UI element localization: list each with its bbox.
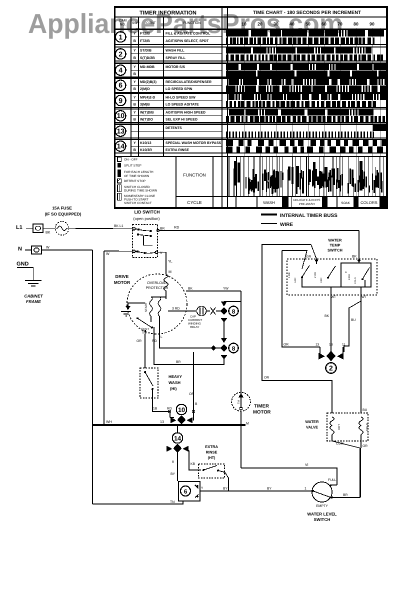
svg-text:SWITCH: SWITCH xyxy=(328,249,343,253)
svg-text:TN: TN xyxy=(170,500,175,504)
svg-text:WASH FILL: WASH FILL xyxy=(166,49,186,53)
temp switch bottom bus xyxy=(302,277,365,287)
cam row 9 xyxy=(115,94,387,108)
wire WT output left xyxy=(330,287,332,351)
svg-text:1: 1 xyxy=(119,34,123,41)
svg-text:YW: YW xyxy=(223,286,229,290)
svg-text:DRIVE: DRIVE xyxy=(115,274,128,279)
svg-text:13: 13 xyxy=(160,420,164,424)
svg-text:WT: WT xyxy=(362,295,367,299)
schematic xyxy=(0,0,1,1)
svg-text:90: 90 xyxy=(370,22,375,27)
timer switch 6 xyxy=(179,482,201,502)
svg-text:FUNCTION: FUNCTION xyxy=(183,173,206,178)
wire down to water temp switch xyxy=(358,231,360,259)
svg-text:FT2/B: FT2/B xyxy=(140,31,150,35)
svg-text:GR: GR xyxy=(306,255,312,259)
svg-text:OR: OR xyxy=(264,376,270,380)
connector P2 (N terminal) xyxy=(25,246,42,254)
svg-text:W: W xyxy=(46,246,50,250)
svg-text:K10/13: K10/13 xyxy=(140,141,151,145)
svg-text:6: 6 xyxy=(119,83,123,90)
svg-text:A: A xyxy=(345,271,347,274)
svg-text:INTERNAL TIMER BUSS: INTERNAL TIMER BUSS xyxy=(280,213,338,219)
svg-text:BK: BK xyxy=(46,231,51,235)
svg-text:RECIRCULATE/DISPENSER: RECIRCULATE/DISPENSER xyxy=(166,80,212,84)
svg-text:MD-MDB: MD-MDB xyxy=(140,65,155,69)
timer information table frame xyxy=(115,7,387,208)
wire OR branch to contact 2 xyxy=(282,251,320,348)
svg-text:KB: KB xyxy=(191,462,196,466)
svg-text:2: 2 xyxy=(329,366,333,373)
svg-text:HOT: HOT xyxy=(337,424,341,430)
wire OR to heavy wash xyxy=(144,334,146,368)
svg-text:1B: 1B xyxy=(153,407,158,411)
timer contact 10 xyxy=(176,404,186,414)
svg-text:GND: GND xyxy=(17,262,29,268)
wire left rail N down xyxy=(91,250,93,504)
start winding xyxy=(150,297,153,316)
svg-text:OR: OR xyxy=(137,339,143,343)
svg-text:DETENT STOP: DETENT STOP xyxy=(124,179,146,183)
svg-text:M: M xyxy=(246,422,249,426)
svg-text:(open position): (open position) xyxy=(133,216,160,221)
svg-text:START: START xyxy=(144,302,148,312)
svg-text:TIMER INFORMATION: TIMER INFORMATION xyxy=(139,11,196,17)
svg-text:BY: BY xyxy=(267,486,272,490)
svg-text:SOAK: SOAK xyxy=(341,201,351,205)
main winding xyxy=(158,297,161,316)
svg-text:11: 11 xyxy=(342,343,346,347)
svg-text:4: 4 xyxy=(119,68,123,75)
cam row 10 xyxy=(115,109,387,123)
svg-text:MP(4)2-D: MP(4)2-D xyxy=(140,95,156,99)
svg-text:60: 60 xyxy=(322,22,327,27)
svg-text:SPLIT STEP: SPLIT STEP xyxy=(124,164,141,168)
connector P1 (L1 terminal) xyxy=(26,224,43,233)
svg-text:SPRAY FILL: SPRAY FILL xyxy=(166,56,187,60)
wire lid switch to drive motor xyxy=(158,252,166,274)
svg-text:RD: RD xyxy=(167,407,172,411)
legend wire xyxy=(261,223,277,225)
wire N horizontal xyxy=(42,249,93,251)
wire fuse to lid switch xyxy=(69,227,132,230)
svg-text:AGIT/SPIN HIGH SPEED: AGIT/SPIN HIGH SPEED xyxy=(166,111,207,115)
temp switch contacts xyxy=(302,259,370,279)
svg-text:10: 10 xyxy=(242,22,247,27)
svg-text:BK: BK xyxy=(188,286,193,290)
svg-text:MOTOR S/S: MOTOR S/S xyxy=(166,65,186,69)
svg-text:RD: RD xyxy=(174,226,180,230)
svg-text:BK: BK xyxy=(325,314,330,318)
svg-text:WH: WH xyxy=(106,420,112,424)
svg-text:TM: TM xyxy=(238,400,241,404)
svg-text:YL: YL xyxy=(168,260,172,264)
svg-text:1B: 1B xyxy=(329,343,333,347)
svg-text:AGIT/SPIN SELECT, SPDT: AGIT/SPIN SELECT, SPDT xyxy=(166,39,210,43)
svg-text:W: W xyxy=(106,252,110,256)
winding top connections xyxy=(151,295,166,299)
svg-text:PRE-WASH: PRE-WASH xyxy=(299,202,315,206)
svg-text:CONT: CONT xyxy=(146,21,156,25)
svg-text:10: 10 xyxy=(117,113,125,120)
wire OR loop left xyxy=(262,245,332,414)
svg-text:LO SPEED SPIN: LO SPEED SPIN xyxy=(166,87,193,91)
timer contact 8A xyxy=(221,302,227,307)
svg-text:WASH: WASH xyxy=(263,200,275,205)
water level switch S5 xyxy=(312,482,332,502)
svg-text:TEMP: TEMP xyxy=(330,244,341,248)
svg-text:FILL & AGITATE CONTROL: FILL & AGITATE CONTROL xyxy=(166,31,212,35)
svg-text:BR: BR xyxy=(343,493,348,497)
svg-text:EXTRA RINSE: EXTRA RINSE xyxy=(166,148,190,152)
svg-text:CYCLE: CYCLE xyxy=(187,200,202,205)
wire RD to contact 8B xyxy=(160,335,222,348)
svg-text:LID SWITCH: LID SWITCH xyxy=(134,210,160,215)
svg-text:BR: BR xyxy=(160,227,165,231)
heavy wash switch S2 xyxy=(140,368,158,398)
wire BY to water level switch xyxy=(200,490,312,492)
svg-text:1: 1 xyxy=(305,486,307,490)
svg-text:RD: RD xyxy=(152,339,157,343)
wire 14 to extra rinse xyxy=(189,451,201,471)
svg-text:OR: OR xyxy=(363,444,369,448)
svg-text:L1: L1 xyxy=(16,225,22,231)
svg-text:BU: BU xyxy=(363,408,368,412)
svg-text:80: 80 xyxy=(354,22,359,27)
wire L1 to fuse xyxy=(43,227,55,229)
wire contact 10 right leg xyxy=(193,352,195,421)
cam row 14 xyxy=(115,140,387,154)
wire heavy wash to contact 10 xyxy=(153,390,171,412)
svg-text:MOTOR: MOTOR xyxy=(253,410,271,416)
svg-text:HI-LO SPEED S/W: HI-LO SPEED S/W xyxy=(166,95,197,99)
drive motor M1 xyxy=(127,274,187,334)
svg-text:CABINET: CABINET xyxy=(24,294,43,299)
wire 14 down to switch 6 xyxy=(177,453,179,482)
svg-text:140F: 140F xyxy=(294,277,297,283)
wire RD top buss xyxy=(159,230,359,232)
internal timer buss vertical xyxy=(240,291,242,392)
timer contact 14 xyxy=(177,425,179,434)
internal timer buss bottom rail xyxy=(92,424,245,426)
svg-text:K10/3R: K10/3R xyxy=(140,148,152,152)
svg-text:COLD: COLD xyxy=(354,277,357,284)
wire valve bottoms join xyxy=(332,437,361,448)
legend internal timer buss xyxy=(261,214,277,216)
centrifugal switch xyxy=(137,318,151,327)
svg-text:OVERLOAD: OVERLOAD xyxy=(147,281,167,285)
overload protector coil xyxy=(164,275,168,298)
svg-text:10: 10 xyxy=(178,407,186,414)
svg-text:FULL: FULL xyxy=(328,478,336,482)
wire WT output right xyxy=(360,287,362,413)
svg-text:NO.: NO. xyxy=(120,23,126,27)
legend symbol key xyxy=(118,157,158,205)
wire 8B down and left xyxy=(154,333,224,365)
svg-text:WATER: WATER xyxy=(305,420,319,424)
svg-text:50: 50 xyxy=(306,22,311,27)
svg-text:14: 14 xyxy=(174,436,182,443)
wire empty out xyxy=(333,497,360,499)
svg-text:MD(2)B(3): MD(2)B(3) xyxy=(140,80,157,84)
time chart scale numbers xyxy=(242,22,375,27)
svg-text:RINSE: RINSE xyxy=(206,451,218,455)
svg-text:HEAVY: HEAVY xyxy=(169,374,183,379)
valve solenoid right xyxy=(359,417,363,437)
winding bottom leads xyxy=(145,316,159,335)
svg-text:SPECIAL WASH MOTOR BYPASS: SPECIAL WASH MOTOR BYPASS xyxy=(166,141,222,145)
svg-text:9: 9 xyxy=(119,98,123,105)
svg-text:13: 13 xyxy=(117,129,125,136)
time chart grid lines xyxy=(244,28,380,196)
timer contact 2 xyxy=(320,346,343,354)
wire BU branch xyxy=(344,301,361,352)
svg-text:VI: VI xyxy=(305,463,308,467)
svg-text:ST/D/B: ST/D/B xyxy=(140,49,152,53)
svg-text:BU: BU xyxy=(351,318,356,322)
svg-text:COLORS: COLORS xyxy=(361,200,378,205)
svg-text:COLD: COLD xyxy=(365,423,369,431)
svg-text:L: L xyxy=(161,335,163,339)
svg-text:S(T)D/2B: S(T)D/2B xyxy=(140,56,155,60)
svg-text:ON - OFF: ON - OFF xyxy=(124,158,138,162)
svg-text:SEL EXP HI SPEED: SEL EXP HI SPEED xyxy=(166,118,198,122)
wire motor to relay buss top xyxy=(186,290,241,292)
wire VI to water level switch xyxy=(241,468,337,485)
svg-text:OR: OR xyxy=(189,392,195,396)
svg-text:BY: BY xyxy=(171,472,176,476)
svg-text:OF TIME SHOWN: OF TIME SHOWN xyxy=(124,174,149,178)
svg-text:3(M)B: 3(M)B xyxy=(140,102,150,106)
valve solenoid left xyxy=(330,417,334,437)
wire right rail to empty xyxy=(359,448,361,498)
motor internal ground xyxy=(128,303,145,306)
svg-text:40: 40 xyxy=(290,22,295,27)
svg-text:FT2/B: FT2/B xyxy=(140,39,150,43)
legend box xyxy=(115,157,387,209)
svg-text:100F: 100F xyxy=(320,277,323,283)
svg-text:EMPTY: EMPTY xyxy=(316,504,328,508)
svg-text:FUNCTION: FUNCTION xyxy=(183,21,201,25)
svg-text:WIRE: WIRE xyxy=(280,222,294,228)
cam row 4 xyxy=(115,63,387,77)
timer contact 8B xyxy=(221,338,227,343)
svg-text:4 BU: 4 BU xyxy=(348,274,351,280)
svg-text:FRAME: FRAME xyxy=(26,299,41,304)
svg-text:(HT): (HT) xyxy=(208,456,216,460)
svg-text:BK: BK xyxy=(352,255,357,259)
svg-text:(IF SO EQUIPPED): (IF SO EQUIPPED) xyxy=(45,212,82,217)
svg-text:1 BK: 1 BK xyxy=(288,272,291,278)
svg-text:W(T)DO: W(T)DO xyxy=(140,118,153,122)
legend function marks xyxy=(229,157,384,197)
svg-text:14: 14 xyxy=(117,144,125,151)
capacitor C1 / current relay xyxy=(168,310,196,312)
svg-text:BY: BY xyxy=(223,486,228,490)
ground (cabinet frame) xyxy=(25,281,42,287)
svg-text:WATER LEVEL: WATER LEVEL xyxy=(307,512,337,517)
svg-text:WASH: WASH xyxy=(169,380,181,385)
svg-text:SWITCH CONTACT: SWITCH CONTACT xyxy=(124,201,152,205)
timer motor M2 xyxy=(232,392,251,411)
svg-text:WATER: WATER xyxy=(328,239,342,243)
wire gnd xyxy=(17,268,33,281)
svg-text:13: 13 xyxy=(316,343,320,347)
svg-text:SW: SW xyxy=(142,331,147,335)
svg-text:15A FUSE: 15A FUSE xyxy=(52,206,72,211)
wire bottom left rail to switch 6 xyxy=(92,501,183,504)
svg-text:DETENTS: DETENTS xyxy=(166,126,183,130)
svg-text:TIME CHART - 180 SECONDS PER I: TIME CHART - 180 SECONDS PER INCREMENT xyxy=(253,10,361,16)
svg-text:SWITCH: SWITCH xyxy=(314,517,331,522)
svg-text:LO SPEED AGITATE: LO SPEED AGITATE xyxy=(166,102,200,106)
cam row 2 xyxy=(115,47,387,61)
svg-text:DURING TIME SHOWN: DURING TIME SHOWN xyxy=(124,189,157,193)
svg-text:EXTRA: EXTRA xyxy=(205,445,218,449)
cam row 13 xyxy=(115,125,387,138)
wire stub contact 8A xyxy=(224,301,241,303)
svg-text:2(M)D: 2(M)D xyxy=(140,87,150,91)
svg-text:3 RD: 3 RD xyxy=(172,307,180,311)
wire W branch to lid switch xyxy=(104,250,133,252)
svg-text:BK L1: BK L1 xyxy=(114,224,123,228)
cam row 6 xyxy=(115,78,387,92)
svg-text:VALVE: VALVE xyxy=(306,426,319,430)
svg-text:TIMER: TIMER xyxy=(254,404,269,410)
svg-text:20: 20 xyxy=(258,22,263,27)
wire second rail down to buss xyxy=(103,251,105,425)
svg-text:RELAY: RELAY xyxy=(190,325,199,329)
svg-text:OR: OR xyxy=(284,343,290,347)
svg-text:COM: COM xyxy=(336,442,344,446)
svg-text:70: 70 xyxy=(338,22,343,27)
fuse F1 15A xyxy=(55,222,69,236)
svg-text:(HI): (HI) xyxy=(170,386,177,391)
cam row 1 xyxy=(115,29,387,44)
cycle row xyxy=(236,197,380,208)
svg-text:BR: BR xyxy=(176,360,181,364)
svg-text:2 OR: 2 OR xyxy=(314,272,317,278)
svg-text:2: 2 xyxy=(119,51,123,58)
svg-text:MOTOR: MOTOR xyxy=(114,280,131,285)
wire extra rinse out xyxy=(219,471,229,492)
svg-text:W(T)D/B: W(T)D/B xyxy=(140,111,154,115)
wire 8A to 8B xyxy=(223,322,225,338)
wire GR entry xyxy=(311,245,317,260)
svg-text:WT: WT xyxy=(331,295,336,299)
svg-text:30: 30 xyxy=(274,22,279,27)
svg-text:8: 8 xyxy=(172,460,174,464)
table column lines xyxy=(131,7,228,208)
svg-text:M: M xyxy=(169,270,172,274)
svg-text:N: N xyxy=(18,247,22,253)
svg-text:SW: SW xyxy=(132,21,138,25)
